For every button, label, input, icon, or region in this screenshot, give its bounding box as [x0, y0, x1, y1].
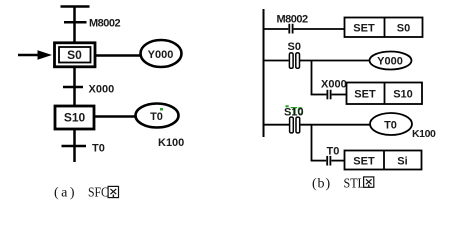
- svg-text:M8002: M8002: [277, 13, 309, 25]
- label M8002: [277, 13, 309, 25]
- STL contact S10 (thick double bars): [290, 117, 300, 133]
- contact M8002: [289, 24, 292, 34]
- svg-text:S0: S0: [288, 41, 301, 53]
- label X000: [321, 79, 347, 91]
- svg-text:T0: T0: [327, 146, 340, 158]
- coil Y000: [370, 52, 412, 70]
- instruction box SET S0: [345, 18, 423, 38]
- wire S10 down: [73, 128, 76, 162]
- svg-text:STL: STL: [344, 175, 365, 191]
- instruction box SET S10: [347, 83, 423, 105]
- svg-text:SET: SET: [353, 23, 375, 35]
- svg-text:X000: X000: [321, 79, 347, 91]
- svg-text:S0: S0: [67, 48, 82, 62]
- rung 3 wire: [263, 124, 371, 126]
- rung 2 wire: [263, 60, 370, 62]
- svg-text:(a): (a): [54, 186, 77, 201]
- svg-text:Y000: Y000: [148, 49, 174, 61]
- svg-text:SFC: SFC: [88, 184, 109, 200]
- input arrow: [18, 50, 52, 60]
- branch wire to X000 sub-rung: [311, 61, 347, 95]
- label T0: [327, 146, 340, 158]
- rung 1 wire: [263, 28, 345, 30]
- label S0: [288, 41, 301, 53]
- coil T0: [370, 113, 412, 135]
- left power rail: [263, 9, 265, 137]
- label S10 with green T0 overlay: [284, 105, 304, 118]
- caption (b) STL tu: [312, 175, 374, 192]
- label X000: [89, 84, 115, 96]
- label M8002: [89, 17, 121, 29]
- value label K100: [158, 137, 184, 149]
- contact X000: [327, 90, 330, 100]
- top terminal bar: [61, 5, 90, 8]
- svg-text:T0: T0: [92, 143, 105, 155]
- wire vertical from top bar to step S0: [73, 6, 76, 43]
- svg-text:S10: S10: [284, 107, 304, 119]
- wire S0 to S10: [73, 66, 76, 106]
- svg-text:X000: X000: [89, 84, 115, 96]
- transition T0: [62, 145, 87, 148]
- svg-text:K100: K100: [412, 128, 436, 140]
- wire S0 to coil Y000: [96, 54, 141, 57]
- svg-text:SET: SET: [354, 89, 376, 101]
- svg-text:(b): (b): [312, 177, 331, 192]
- transition M8002: [64, 21, 87, 24]
- label T0: [92, 143, 105, 155]
- transition X000: [63, 86, 83, 89]
- svg-text:Y000: Y000: [377, 56, 403, 68]
- svg-text:M8002: M8002: [89, 17, 121, 29]
- svg-text:SET: SET: [353, 156, 375, 168]
- caption (a) SFC tu: [54, 184, 119, 201]
- coil T0 (SFC action): [136, 104, 179, 128]
- svg-text:Si: Si: [397, 156, 407, 168]
- contact T0: [327, 156, 330, 166]
- green tick artifact on T0: [160, 108, 163, 111]
- value label K100: [412, 128, 436, 140]
- svg-text:T0: T0: [384, 120, 397, 132]
- branch wire to T0 sub-rung: [311, 125, 345, 161]
- step S10: [55, 106, 94, 129]
- svg-text:S10: S10: [393, 89, 413, 101]
- svg-text:S10: S10: [64, 111, 86, 125]
- svg-text:K100: K100: [158, 137, 184, 149]
- svg-text:T0: T0: [150, 111, 163, 123]
- svg-text:S0: S0: [397, 23, 410, 35]
- STL contact S0 (thick double bars): [289, 53, 299, 68]
- instruction box SET Si: [345, 151, 422, 170]
- wire S10 to timer coil T0: [94, 115, 136, 118]
- initial step S0 (double box): [55, 43, 96, 67]
- coil Y000 (SFC action): [141, 40, 182, 67]
